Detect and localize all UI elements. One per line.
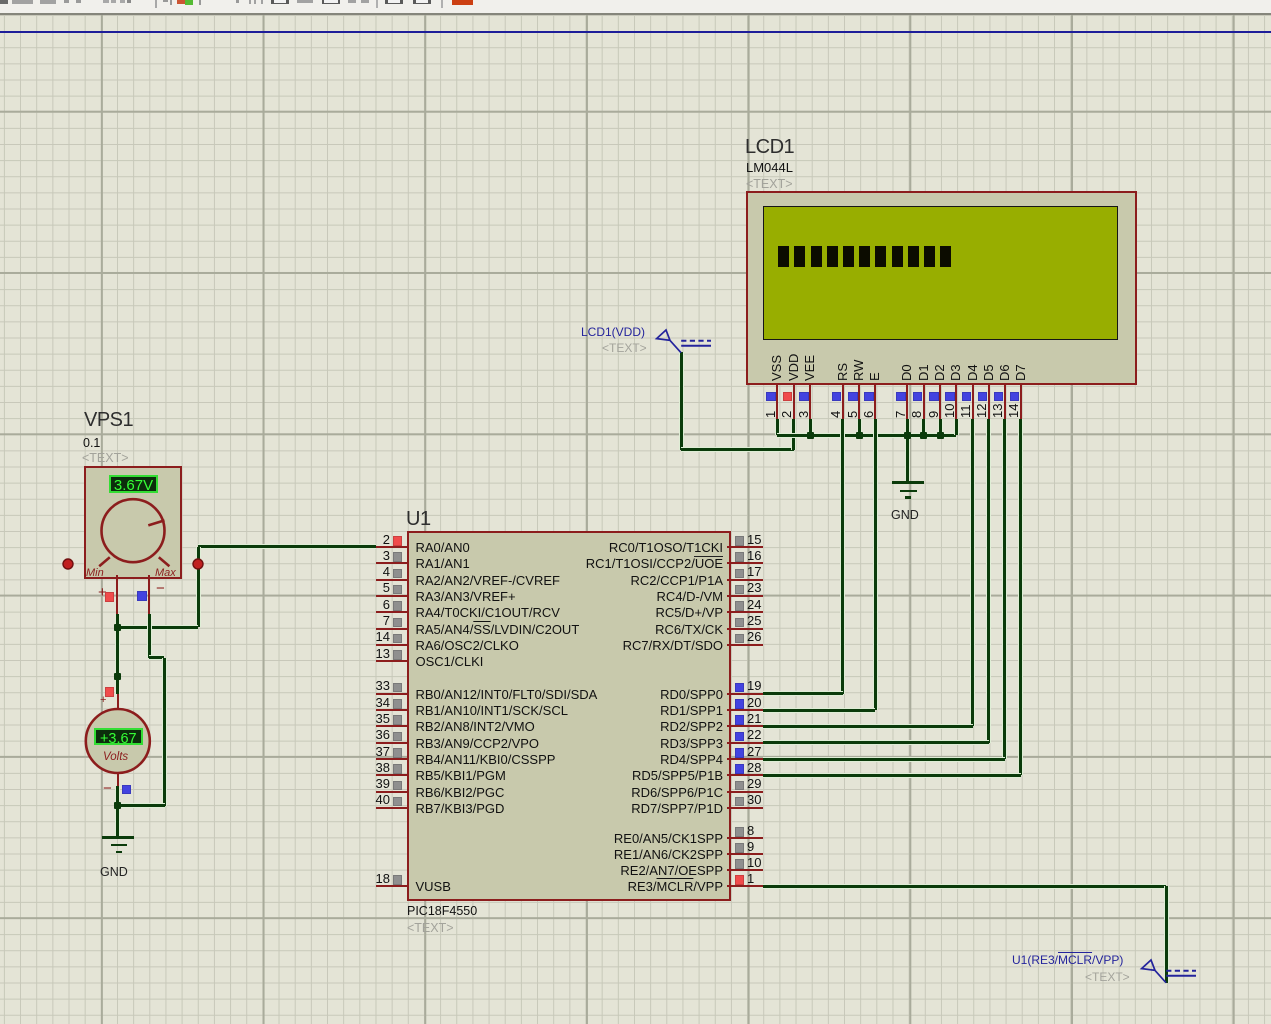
- wire LCD pin10 D3 drop: [955, 419, 958, 436]
- junction D1/bus: [920, 432, 927, 439]
- LCD1 pin 7 label D0 (rotated): [900, 364, 913, 381]
- LCD1 pin 5 label RW (rotated): [852, 360, 865, 381]
- LCD1 pin 5 number (rotated): [846, 410, 859, 417]
- U1 pin 5 state square: [393, 585, 403, 595]
- LCD1 pin 12 stub: [988, 383, 990, 419]
- U1 pin 6 label RA4: [416, 606, 560, 619]
- LCD1 pin 8 state square: [913, 392, 923, 402]
- LCD1 pin 13 label D6 (rotated): [998, 364, 1011, 381]
- junction VPS1 + node: [114, 624, 121, 631]
- U1 pin 33 state square: [393, 683, 403, 693]
- U1 pin 19 stub: [727, 693, 763, 695]
- VPS1 voltage display 3.67V: [109, 475, 158, 494]
- voltmeter display +3.67: [94, 728, 143, 746]
- VPS1 plus sign: [98, 585, 107, 600]
- LCD1 pin 13 stub: [1004, 383, 1006, 419]
- wire LCD pin8 D1 drop: [922, 419, 925, 436]
- wire VPS1 - down: [148, 614, 151, 658]
- U1 pin 18 stub: [376, 885, 408, 887]
- U1 pin 36 label RB3: [416, 737, 540, 750]
- U1 pin 36 stub: [376, 742, 408, 744]
- LCD1 character blocks: [778, 246, 789, 268]
- wire VPS1 wiper vertical: [197, 547, 200, 628]
- U1 pin 4 state square: [393, 569, 403, 579]
- LCD1 reference label: [745, 137, 794, 157]
- U1 pin 26 stub: [727, 644, 763, 646]
- U1 pin 38 number: [352, 761, 390, 774]
- voltmeter - pin square: [122, 785, 132, 795]
- U1 pin 3 number: [352, 549, 390, 562]
- wire LCD pin1 VSS drop: [776, 419, 779, 436]
- U1 pin 5 stub: [376, 595, 408, 597]
- U1 pin 14 state square: [393, 634, 403, 644]
- U1 pin 10 stub: [727, 869, 763, 871]
- U1 pin 1 state square: [735, 875, 745, 885]
- component VPS1 (variable power supply / pot): [0, 0, 1271, 1]
- LCD1(VDD) text placeholder: [602, 342, 647, 354]
- wire VDD horizontal: [681, 448, 794, 451]
- U1 body: [407, 531, 731, 902]
- U1 pin 29 number: [747, 777, 761, 790]
- MCLR terminal symbol: [1135, 955, 1205, 991]
- LCD1 pin 12 state square: [978, 392, 988, 402]
- U1 pin 10 state square: [735, 859, 745, 869]
- U1 pin 24 stub: [727, 611, 763, 613]
- LCD1 screen: [763, 206, 1119, 340]
- U1 pin 18 state square: [393, 875, 403, 885]
- U1 pin 1 number: [747, 872, 754, 885]
- VPS1 pin - stub: [148, 575, 150, 614]
- U1 pin 1 label RE3: [423, 880, 723, 893]
- U1 pin 34 state square: [393, 699, 403, 709]
- wire LCD D4 vertical: [971, 419, 974, 727]
- wire U1 RD1 to E: [763, 709, 875, 712]
- voltmeter top stub: [117, 694, 119, 710]
- U1 pin 36 number: [352, 728, 390, 741]
- U1 pin 22 number: [747, 728, 761, 741]
- U1 pin 27 state square: [735, 748, 745, 758]
- U1 pin 2 state square: [393, 536, 403, 546]
- U1 pin 14 stub: [376, 644, 408, 646]
- U1 pin 39 label RB6: [416, 786, 505, 799]
- LCD1 pin 5 state square: [848, 392, 858, 402]
- U1 pin 7 state square: [393, 618, 403, 628]
- LCD1 pin 12 number (rotated): [975, 403, 988, 417]
- U1 pin 4 number: [352, 565, 390, 578]
- U1 pin 4 stub: [376, 579, 408, 581]
- U1 T1CKI underline mark: [694, 556, 723, 557]
- U1 pin 28 number: [747, 761, 761, 774]
- U1 pin 28 stub: [727, 774, 763, 776]
- junction VEE/bus: [807, 432, 814, 439]
- voltmeter bottom stub: [117, 772, 119, 786]
- U1 pin 25 stub: [727, 628, 763, 630]
- VPS1 body: [84, 466, 182, 579]
- U1 pin 26 state square: [735, 634, 745, 644]
- VPS1 plus pin square: [105, 592, 115, 602]
- U1 pin 34 label RB1: [416, 704, 568, 717]
- voltmeter + marker square: [105, 687, 115, 697]
- U1 pin 20 label RD1: [423, 704, 723, 717]
- U1 pin 38 label RB5: [416, 769, 506, 782]
- wire LCD pin3 VEE drop: [809, 419, 812, 436]
- LCD1 pin 3 label VEE (rotated): [803, 355, 816, 381]
- U1 pin 34 number: [352, 696, 390, 709]
- U1 pin 9 label RE1: [423, 848, 723, 861]
- voltmeter (Volts probe): [0, 0, 1271, 1]
- U1 pin 35 number: [352, 712, 390, 725]
- LCD1 pin 10 label D3 (rotated): [949, 364, 962, 381]
- U1 pin 17 stub: [727, 579, 763, 581]
- U1 pin 6 number: [352, 598, 390, 611]
- U1 pin 30 number: [747, 793, 761, 806]
- U1 pin 28 state square: [735, 764, 745, 774]
- U1 pin 19 number: [747, 679, 761, 692]
- LCD1 body: [746, 191, 1137, 386]
- LCD1 pin 1 state square: [766, 392, 776, 402]
- U1 pin 17 state square: [735, 569, 745, 579]
- wire U1 RE3/MCLR horizontal: [763, 885, 1166, 888]
- U1 pin 27 stub: [727, 758, 763, 760]
- LCD1 pin 2 state square: [783, 392, 793, 402]
- wire to voltmeter - node: [118, 804, 165, 807]
- U1 pin 1 stub: [727, 885, 763, 887]
- wire up to LCD pin 2 VDD: [792, 419, 795, 450]
- LCD1 pin 3 stub: [809, 383, 811, 419]
- U1 pin 3 label RA1: [416, 557, 470, 570]
- toolbar strip (cut off at top): [0, 0, 1271, 15]
- ground symbol (left): [0, 0, 1271, 1]
- LCD1 pin 14 number (rotated): [1007, 403, 1020, 417]
- sheet border line: [0, 31, 1271, 33]
- junction D0/bus/GND: [904, 432, 911, 439]
- U1 pin 5 label RA3: [416, 590, 516, 603]
- LCD1 pin 3 state square: [799, 392, 809, 402]
- wire to VPS1 + column: [117, 626, 198, 629]
- LCD1 pin 6 state square: [864, 392, 874, 402]
- LCD1 pin 10 number (rotated): [943, 403, 956, 417]
- U1 pin 21 state square: [735, 715, 745, 725]
- U1 pin 13 label OSC1: [416, 655, 484, 668]
- VPS1 value label 0.1: [83, 437, 100, 450]
- U1 pin 16 stub: [727, 562, 763, 564]
- U1 pin 30 label RD7: [423, 802, 723, 815]
- LCD1 pin 14 stub: [1020, 383, 1022, 419]
- junction voltmeter - node: [114, 802, 121, 809]
- LCD1 text placeholder: [746, 178, 793, 191]
- wire bus to ground symbol: [906, 435, 909, 481]
- U1 pin 17 number: [747, 565, 761, 578]
- U1 pin 40 state square: [393, 797, 403, 807]
- U1 pin 29 stub: [727, 791, 763, 793]
- LCD1(VDD) terminal symbol: [650, 325, 720, 357]
- ground symbol (right): [0, 0, 1271, 1]
- LCD1 pin 4 stub: [842, 383, 844, 419]
- VPS1 Min label: [86, 568, 104, 579]
- LCD1 pin 9 number (rotated): [927, 410, 940, 417]
- LCD1 pin 14 state square: [1010, 392, 1020, 402]
- U1 pin 33 stub: [376, 693, 408, 695]
- U1 pin 8 label RE0: [423, 832, 723, 845]
- U1 pin 7 stub: [376, 628, 408, 630]
- U1 reference label: [406, 509, 431, 529]
- U1 pin 19 state square: [735, 683, 745, 693]
- U1 pin 22 label RD3: [423, 737, 723, 750]
- U1 pin 24 number: [747, 598, 761, 611]
- U1 pin 20 stub: [727, 709, 763, 711]
- LCD1 pin 6 label E (rotated): [868, 372, 881, 381]
- LCD1 pin 9 label D2 (rotated): [933, 364, 946, 381]
- U1 pin 9 state square: [735, 843, 745, 853]
- LCD1 pin 9 state square: [929, 392, 939, 402]
- U1 pin 20 number: [747, 696, 761, 709]
- junction D2/bus: [937, 432, 944, 439]
- U1 pin 25 state square: [735, 618, 745, 628]
- U1 pin 13 stub: [376, 660, 408, 662]
- U1 pin 37 label RB4: [416, 753, 556, 766]
- LCD1 pin 10 stub: [955, 383, 957, 419]
- LCD1 pin 7 number (rotated): [894, 410, 907, 417]
- U1 pin 40 label RB7: [416, 802, 505, 815]
- junction RW/bus: [856, 432, 863, 439]
- VPS1 Max label: [155, 568, 176, 579]
- U1 value label PIC18F4550: [407, 905, 477, 918]
- U1 pin 30 stub: [727, 807, 763, 809]
- U1 pin 30 state square: [735, 797, 745, 807]
- U1 pin 22 stub: [727, 742, 763, 744]
- U1 pin 23 stub: [727, 595, 763, 597]
- wire U1 RD5 to D7: [763, 774, 1021, 777]
- VPS1 right terminal dot: [191, 557, 205, 571]
- power terminal LCD1(VDD): [0, 0, 1271, 1]
- wire LCD D6 vertical: [1003, 419, 1006, 760]
- U1 pin 25 number: [747, 614, 761, 627]
- LCD1 pin 4 number (rotated): [829, 410, 842, 417]
- LCD1 pin 7 state square: [896, 392, 906, 402]
- U1 pin 13 number: [352, 647, 390, 660]
- U1 pin 2 stub: [376, 546, 408, 548]
- U1 pin 18 number: [352, 872, 390, 885]
- LCD1 pin 4 state square: [832, 392, 842, 402]
- VPS1 minus pin square: [137, 591, 147, 601]
- LCD1 pin 13 number (rotated): [991, 403, 1004, 417]
- wire VPS1 - long vertical: [163, 658, 166, 806]
- LCD1 pin 6 number (rotated): [862, 410, 875, 417]
- U1 pin 39 number: [352, 777, 390, 790]
- U1 pin 5 number: [352, 581, 390, 594]
- U1 pin 17 label RC2: [423, 574, 723, 587]
- U1 pin 35 label RB2: [416, 720, 535, 733]
- U1 pin 15 number: [747, 533, 761, 546]
- LCD1 pin 1 label VSS (rotated): [770, 355, 783, 381]
- GND label (right): [891, 509, 919, 522]
- U1 pin 14 number: [352, 630, 390, 643]
- U1 pin 24 state square: [735, 601, 745, 611]
- wire LCD D7 vertical: [1019, 419, 1022, 776]
- U1 pin 21 stub: [727, 725, 763, 727]
- U1 pin 16 number: [747, 549, 761, 562]
- U1 pin 26 label RC7: [423, 639, 723, 652]
- LCD1 pin 10 state square: [945, 392, 955, 402]
- GND label (left): [100, 866, 128, 879]
- U1 pin 33 number: [352, 679, 390, 692]
- voltmeter Volts label: [103, 752, 128, 764]
- U1 pin 37 stub: [376, 758, 408, 760]
- LCD1 pin 4 label RS (rotated): [836, 363, 849, 381]
- LCD1 pin 2 stub: [793, 383, 795, 419]
- U1 pin 6 stub: [376, 611, 408, 613]
- wire GND bus under LCD: [777, 434, 956, 437]
- U1 pin 28 label RD5: [423, 769, 723, 782]
- U1 pin 9 number: [747, 840, 754, 853]
- LCD1 pin 8 stub: [923, 383, 925, 419]
- U1 pin 35 state square: [393, 715, 403, 725]
- U1 pin 7 label RA5: [416, 623, 580, 636]
- U1 pin 15 state square: [735, 536, 745, 546]
- LCD1 pin 2 number (rotated): [780, 410, 793, 417]
- wire voltmeter - to ground: [116, 786, 119, 836]
- U1 pin 18 label VUSB: [416, 880, 451, 893]
- U1 pin 39 stub: [376, 791, 408, 793]
- LCD display LCD1 LM044L: [0, 0, 1271, 1]
- LCD1 pin 8 label D1 (rotated): [917, 364, 930, 381]
- U1 pin 25 label RC6: [423, 623, 723, 636]
- terminal text placeholder: [1085, 971, 1130, 983]
- U1 pin 37 number: [352, 745, 390, 758]
- wire LCD pin5 RW drop: [858, 419, 861, 436]
- U1(RE3/MCLR/VPP) label: [1012, 954, 1123, 966]
- wire VPS1 + down to voltmeter: [116, 614, 119, 695]
- wire U1.RA0 horizontal: [198, 545, 376, 548]
- LCD1 pin 1 stub: [776, 383, 778, 419]
- U1 pin 2 number: [352, 533, 390, 546]
- LCD1 pin 12 label D5 (rotated): [982, 364, 995, 381]
- U1 pin 38 state square: [393, 764, 403, 774]
- U1 pin 27 number: [747, 745, 761, 758]
- U1 pin 39 state square: [393, 781, 403, 791]
- LCD1 pin 1 number (rotated): [764, 410, 777, 417]
- U1 pin 19 label RD0: [423, 688, 723, 701]
- U1 pin 34 stub: [376, 709, 408, 711]
- U1 pin 13 state square: [393, 650, 403, 660]
- wire LCD pin9 D2 drop: [939, 419, 942, 436]
- U1 pin 16 label RC1: [423, 557, 723, 570]
- U1 pin 3 stub: [376, 562, 408, 564]
- wire U1 RD4 to D6: [763, 758, 1005, 761]
- toolbar icon fragments: [0, 0, 8, 4]
- LCD1(VDD) label: [581, 326, 645, 338]
- U1 pin 16 state square: [735, 552, 745, 562]
- U1 pin 23 number: [747, 581, 761, 594]
- U1 pin 2 label RA0: [416, 541, 470, 554]
- U1 pin 38 stub: [376, 774, 408, 776]
- wire LCD pin7 D0 drop: [906, 419, 909, 436]
- U1 text placeholder: [407, 922, 454, 935]
- U1 pin 23 state square: [735, 585, 745, 595]
- junction voltmeter + node: [114, 673, 121, 680]
- U1 pin 23 label RC4: [423, 590, 723, 603]
- LCD1 pin 9 stub: [939, 383, 941, 419]
- MCU U1 PIC18F4550: [0, 0, 1271, 1]
- U1 pin 40 number: [352, 793, 390, 806]
- U1 pin 36 state square: [393, 732, 403, 742]
- LCD1 pin 7 stub: [906, 383, 908, 419]
- LCD1 pin 11 label D4 (rotated): [966, 364, 979, 381]
- LCD1 pin 2 label VDD (rotated): [787, 354, 800, 381]
- U1 pin 3 state square: [393, 552, 403, 562]
- voltmeter circle body: [83, 706, 153, 776]
- VPS1 minus sign: [156, 581, 165, 596]
- wire U1 RD3 to D5: [763, 741, 989, 744]
- U1 pin 10 label RE2: [423, 864, 723, 877]
- wire MCLR down to terminal: [1165, 886, 1168, 983]
- U1 pin 21 label RD2: [423, 720, 723, 733]
- U1 pin 15 label RC0: [423, 541, 723, 554]
- U1 pin 35 stub: [376, 725, 408, 727]
- wire U1 RD2 to D4: [763, 725, 973, 728]
- wire LCD RS vertical: [841, 419, 844, 694]
- wire VDD terminal down: [680, 352, 683, 450]
- LCD1 pin 14 label D7 (rotated): [1014, 364, 1027, 381]
- U1 pin 24 label RC5: [423, 606, 723, 619]
- U1 pin 29 state square: [735, 781, 745, 791]
- U1 pin 10 number: [747, 856, 761, 869]
- U1 pin 8 number: [747, 824, 754, 837]
- U1 pin 20 state square: [735, 699, 745, 709]
- U1 pin 14 label RA6: [416, 639, 519, 652]
- voltmeter - sign: [103, 781, 112, 796]
- wire LCD D5 vertical: [987, 419, 990, 743]
- wire LCD E vertical: [874, 419, 877, 711]
- VPS1 pin + stub: [116, 575, 118, 614]
- U1 pin 9 stub: [727, 853, 763, 855]
- U1 pin 27 label RD4: [423, 753, 723, 766]
- LCD1 pin 11 stub: [972, 383, 974, 419]
- U1 pin 4 label RA2: [416, 574, 560, 587]
- VPS1 reference label: [84, 410, 133, 430]
- LCD1 pin 13 state square: [994, 392, 1004, 402]
- U1 pin 8 stub: [727, 837, 763, 839]
- U1 pin 37 state square: [393, 748, 403, 758]
- wire U1 RD0 to RS: [763, 692, 843, 695]
- U1 pin 6 state square: [393, 601, 403, 611]
- U1 pin 21 number: [747, 712, 761, 725]
- VPS1 knob: [84, 466, 182, 579]
- LCD1 pin 8 number (rotated): [910, 410, 923, 417]
- VPS1 text placeholder: [82, 452, 129, 465]
- LCD1 value label LM044L: [746, 161, 793, 174]
- LCD1 pin 5 stub: [858, 383, 860, 419]
- U1 pin 22 state square: [735, 732, 745, 742]
- U1 pin 40 stub: [376, 807, 408, 809]
- LCD1 pin 11 state square: [962, 392, 972, 402]
- VPS1 left terminal dot: [61, 557, 75, 571]
- U1 pin 26 number: [747, 630, 761, 643]
- U1 pin 7 number: [352, 614, 390, 627]
- power terminal U1(RE3/MCLR/VPP): [0, 0, 1271, 1]
- wire VPS1 - jog: [149, 656, 164, 659]
- U1 pin 15 stub: [727, 546, 763, 548]
- LCD1 pin 3 number (rotated): [797, 410, 810, 417]
- U1 pin 33 label RB0: [416, 688, 598, 701]
- U1 pin 29 label RD6: [423, 786, 723, 799]
- LCD1 pin 6 stub: [874, 383, 876, 419]
- LCD1 pin 11 number (rotated): [959, 404, 972, 418]
- U1 pin 8 state square: [735, 827, 745, 837]
